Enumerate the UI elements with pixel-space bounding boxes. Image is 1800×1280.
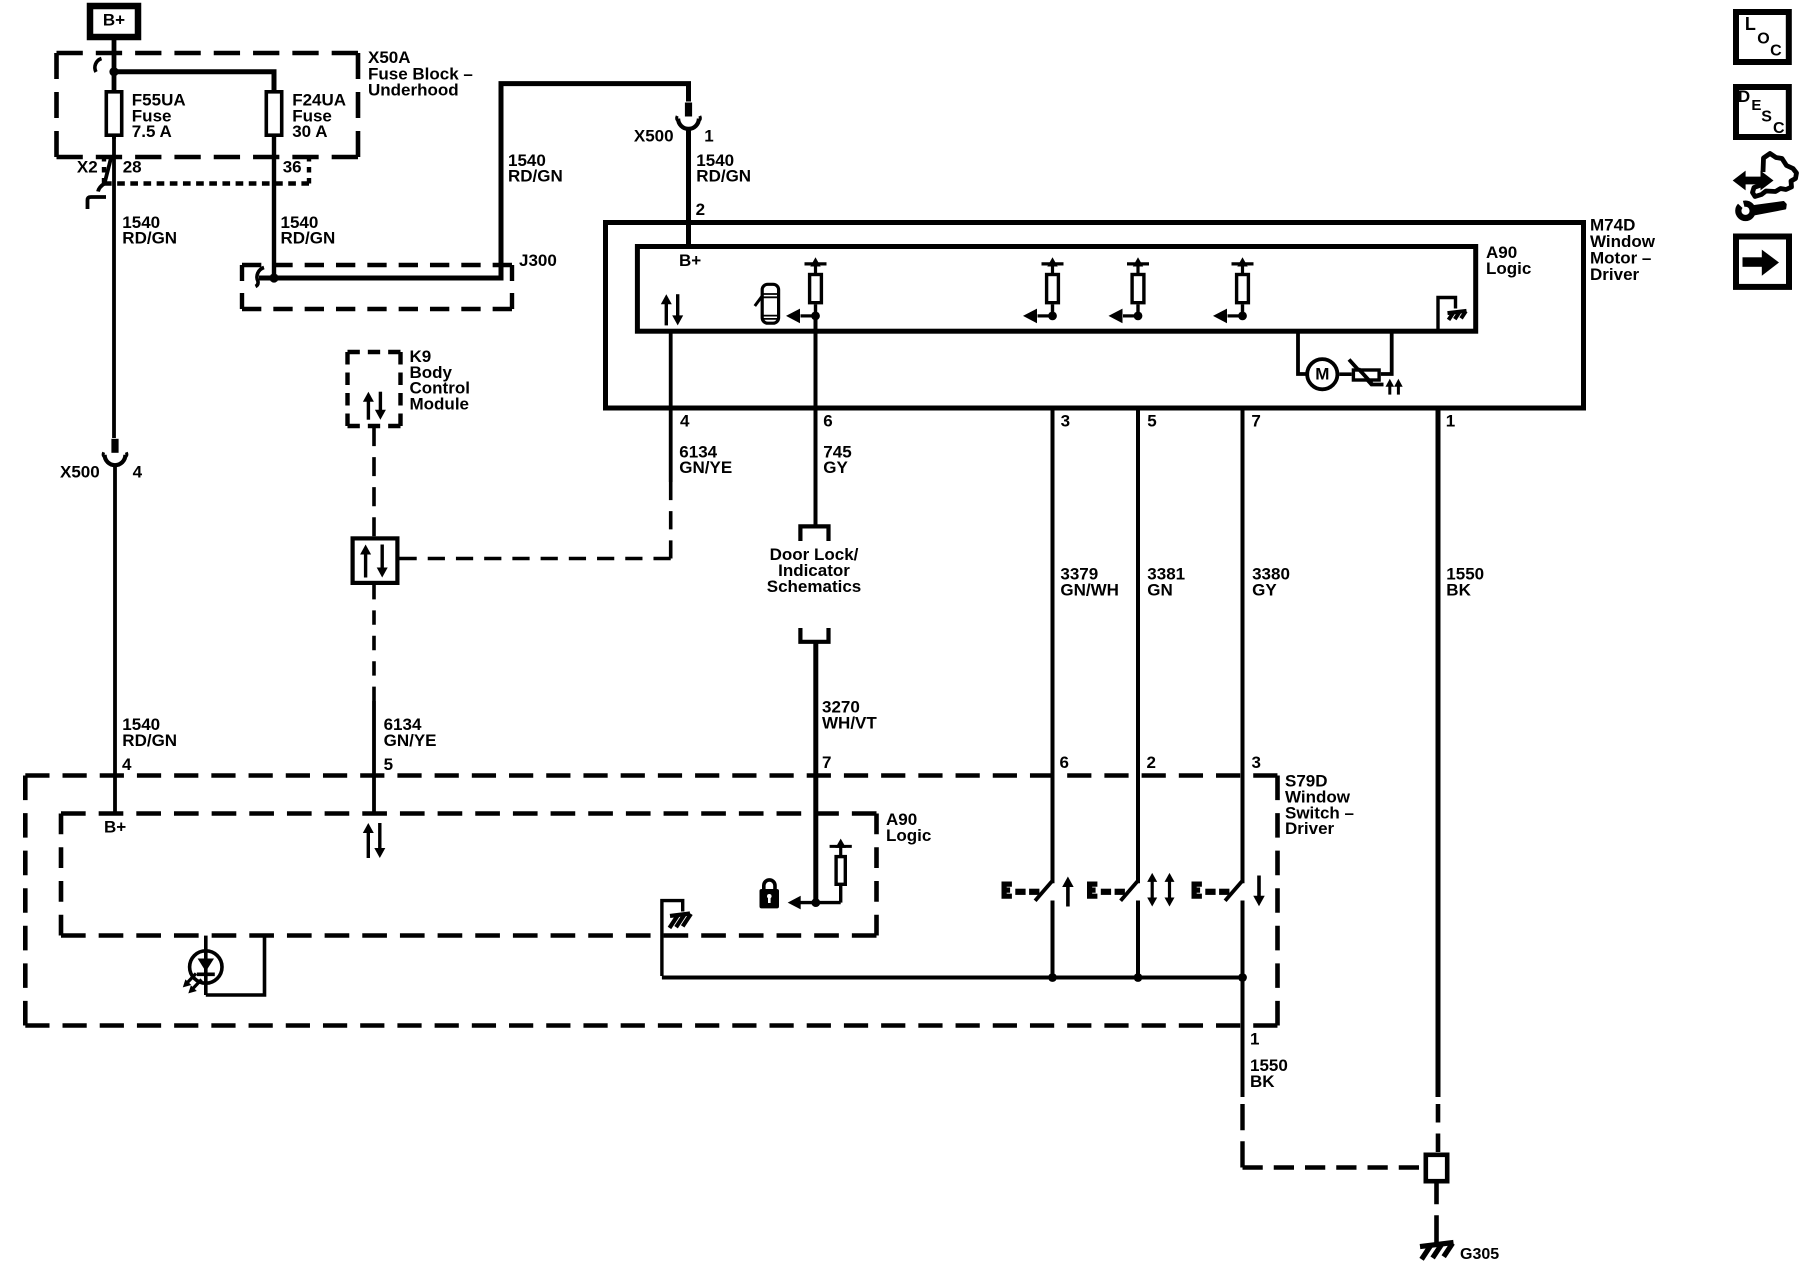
driver output symbol (pin 6, window up) [805,262,827,265]
wire 6134 GN/YE into S79D pin 5 [372,701,376,814]
svg-text:Logic: Logic [886,826,931,845]
svg-text:J300: J300 [519,251,557,270]
junction dot rail/switch 3 [1238,973,1247,982]
up/down arrows inside S79D logic at pin 5 [367,832,370,858]
svg-text:BK: BK [1446,580,1471,599]
svg-text:X500: X500 [60,462,100,481]
wire 3381 GN M74D pin 5 to S79D pin 2 [1136,409,1140,884]
wire 1540 RD/GN fuse F24UA to splice J300 [272,137,276,278]
driver output symbol (pin 7) [1232,262,1254,265]
svg-text:B+: B+ [103,10,125,29]
off-page connector from Door Lock schematics (bottom bracket) [800,628,828,642]
svg-text:30 A: 30 A [292,122,327,141]
svg-text:GN: GN [1147,580,1173,599]
svg-text:7: 7 [1251,412,1260,431]
wire 1540 RD/GN fuse F55UA to X500 pin 4 [112,137,116,438]
wire 1550 BK from M74D pin 1 (ground return) [1436,409,1441,1098]
connector X2 dotted boundary [102,156,106,184]
wire lamp return loop [206,936,265,995]
wire B+ to fuse block [112,40,117,90]
label 6134 GN/YE (upper) [679,443,732,478]
svg-text:B+: B+ [679,251,701,270]
wire thermistor to right stub [1381,329,1392,374]
label K9 Body Control Module [410,347,470,414]
off-page connector to Door Lock/Indicator Schematics (top bracket) [800,526,828,541]
thermal protector (PTC) [1349,360,1384,385]
wire motor supply left stub [1298,329,1306,374]
internal ground symbol of S79D logic [662,901,691,976]
svg-text:4: 4 [680,412,690,431]
label 3381 GN [1147,565,1185,600]
switch (window down) at S79D pin 3 [1192,882,1202,899]
icon box forward arrow [1736,237,1789,287]
svg-text:1: 1 [1250,1030,1259,1049]
two up arrows beside thermal protector [1386,379,1403,395]
switch (express) at S79D pin 2 [1087,882,1097,899]
svg-text:RD/GN: RD/GN [696,167,751,186]
svg-text:L: L [1745,14,1756,34]
wire switch 1 to common rail [1051,901,1055,978]
window up/down command box (solid) [353,538,398,583]
up/down arrows inside K9 [367,401,370,420]
label 1540 RD/GN (lower left) [122,715,177,750]
svg-text:WH/VT: WH/VT [822,713,877,732]
up arrow beside switch 1 [1066,886,1070,907]
svg-text:7.5 A: 7.5 A [132,122,172,141]
dashed wire inline connector to ground G305 [1434,1184,1439,1237]
svg-text:S: S [1761,109,1772,126]
svg-text:Driver: Driver [1285,819,1335,838]
label F24UA Fuse 30 A [292,91,346,142]
icon box LOC [1736,12,1789,62]
switch (window up) at S79D pin 6 [1002,882,1012,899]
label S79D Window Switch - Driver [1285,772,1354,838]
svg-text:M: M [1315,365,1329,384]
wire 3270 WH/VT to S79D pin 7 [813,642,818,903]
label 3270 WH/VT [822,698,877,733]
label A90 Logic (S79D) [886,810,931,845]
icon arrows and wrench (diagnostics) [1733,154,1797,219]
icon box DESC [1736,87,1789,137]
svg-text:C: C [1770,43,1782,60]
driver output symbol (pin 3) [1042,262,1064,265]
svg-text:RD/GN: RD/GN [122,731,177,750]
splice J300 dashed box [242,263,512,267]
wire lock node to pull-up resistor [800,901,841,904]
svg-text:BK: BK [1250,1072,1275,1091]
fuse F55UA 7.5 A [106,88,121,139]
svg-text:5: 5 [1147,412,1156,431]
connector X500 pin 1 [685,103,692,117]
svg-text:E: E [1751,97,1761,114]
label 3379 GN/WH [1060,565,1119,600]
svg-text:Schematics: Schematics [767,577,862,596]
module K9 Body Control Module dashed box [348,350,401,354]
svg-text:6: 6 [1060,753,1069,772]
svg-text:GY: GY [1252,580,1277,599]
label 1550 BK (right) [1446,565,1484,600]
svg-text:GN/YE: GN/YE [679,458,732,477]
svg-text:GN/YE: GN/YE [384,731,437,750]
junction dot at fuse block feed [109,67,118,76]
dashed wire K9 to arrow box [372,427,376,536]
power symbol B+ (battery feed) [90,6,138,37]
down arrow beside switch 3 [1257,876,1261,897]
pull-up resistor at pin 7 [830,839,852,903]
label A90 Logic (M74D) [1486,243,1531,278]
wire motor to thermistor [1339,372,1352,376]
dashed serial link from pin 4 wire to BCM arrow box [669,482,673,559]
switch common ground rail [662,976,1243,980]
svg-text:O: O [1757,30,1769,47]
svg-text:D: D [1738,87,1750,106]
splice hook inside J300 [256,268,265,287]
label 1540 RD/GN (fuse F24UA output) [281,213,336,248]
wire 3380 GY M74D pin 7 to S79D pin 3 [1241,409,1245,884]
dashed wire M74D 1550 BK to inline connector [1436,1104,1441,1152]
fuse block X50A dashed box [57,51,359,56]
double up/down arrows beside switch 2 [1147,873,1174,907]
svg-text:X500: X500 [634,126,674,145]
junction dot J300 [269,273,278,282]
svg-text:36: 36 [283,158,302,177]
svg-text:4: 4 [133,462,143,481]
svg-text:2: 2 [1147,753,1156,772]
label 1540 RD/GN (left) [122,213,177,248]
arrow to lock symbol [788,896,801,910]
svg-text:GN/WH: GN/WH [1060,580,1119,599]
ground G305 stub [1434,1236,1439,1244]
svg-text:6: 6 [823,412,832,431]
svg-text:3: 3 [1061,412,1070,431]
svg-text:28: 28 [123,158,142,177]
wire 6134 GN/YE from M74D pin 4 [669,331,673,482]
svg-text:X2: X2 [77,158,98,177]
car icon (vehicle speed input) [755,284,779,323]
junction dot at pin 7 lock node [811,898,820,907]
label F55UA Fuse 7.5 A [132,91,186,142]
fuse F24UA 30 A [266,88,281,139]
motor M (window motor) [1307,359,1337,389]
wire switch 2 to common rail [1136,901,1140,978]
logic block A90 inner dashed box (S79D) [61,811,877,816]
dashed wire S79D pin 1 to inline connector [1240,1104,1244,1168]
wire 745 GY from M74D pin 6 [814,316,818,526]
indicator LED lamp [183,936,222,995]
logic block A90 inner box (M74D) [637,247,1475,332]
padlock symbol (window lockout) [760,880,780,909]
svg-text:2: 2 [696,200,705,219]
svg-text:GY: GY [823,458,848,477]
label M74D Window Motor - Driver [1590,216,1656,284]
internal ground symbol of A90 logic [1438,298,1467,330]
svg-text:Underhood: Underhood [368,81,459,100]
wire switch 3 to common rail and pin 1 [1241,901,1245,1098]
module M74D Window Motor Driver outer box [606,223,1584,409]
fuse block internal splice hook [95,59,102,73]
dashed wire arrow box to S79D pin 5 riser [372,585,376,701]
junction dot rail/switch 2 [1134,973,1143,982]
ground G305 [1420,1243,1454,1260]
junction dot rail/switch 1 [1048,973,1057,982]
svg-text:C: C [1773,120,1785,137]
label 1540 RD/GN (to M74D) [696,151,751,186]
label 6134 GN/YE (lower) [384,715,437,750]
svg-text:Logic: Logic [1486,259,1531,278]
wire branch to fuse F24UA [114,72,274,90]
inline connector square [1426,1155,1447,1181]
svg-text:Module: Module [410,395,470,414]
wire 1540 RD/GN X500 to S79D B+ [113,464,117,814]
wire J300 splice to X500 pin 1 (thick B+ feed) [259,84,689,278]
driver output symbol (pin 5) [1127,262,1149,265]
label X50A Fuse Block - Underhood [368,48,473,99]
svg-text:5: 5 [384,755,393,774]
label 3380 GY [1252,565,1290,600]
label 1540 RD/GN (riser) [508,151,563,186]
svg-text:RD/GN: RD/GN [122,229,177,248]
svg-text:RD/GN: RD/GN [508,167,563,186]
svg-text:Driver: Driver [1590,265,1640,284]
label 1550 BK (bottom) [1250,1056,1288,1091]
module S79D Window Switch Driver outer dashed box [25,773,1277,778]
svg-text:4: 4 [122,755,132,774]
svg-text:RD/GN: RD/GN [281,229,336,248]
connector X2 pin 28 terminal symbol [105,156,112,184]
svg-text:G305: G305 [1460,1246,1499,1263]
up/down arrows symbol (window move logic) [665,303,668,325]
connector X500 pin 4 [111,439,118,453]
svg-text:3: 3 [1252,753,1261,772]
label 745 GY [823,443,851,478]
label Door Lock/Indicator Schematics [767,545,862,596]
svg-text:1: 1 [1446,412,1455,431]
wire 1540 RD/GN X500 to M74D pin 2 [686,128,691,250]
svg-text:1: 1 [704,126,713,145]
wire 3379 GN/WH M74D pin 3 to S79D pin 6 [1051,409,1055,884]
svg-text:7: 7 [822,753,831,772]
svg-text:B+: B+ [104,818,126,837]
